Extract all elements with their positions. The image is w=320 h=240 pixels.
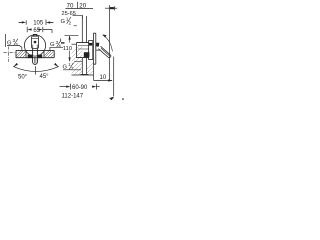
finished wall extension line [109, 5, 111, 80]
svg-text:65: 65 [33, 28, 40, 34]
dim 70/20 line [66, 8, 94, 10]
small mark [60, 39, 62, 42]
handle hub [96, 43, 101, 50]
body seal dark left [28, 55, 33, 59]
escutcheon side view [93, 33, 95, 64]
wall hatch left of pipes [72, 43, 77, 45]
body flange [89, 41, 93, 60]
dim 65 left arrow [26, 27, 28, 32]
cartridge body [32, 36, 39, 48]
dim 10 line [94, 80, 113, 82]
lever handle (front, pointing down) [33, 49, 38, 65]
dim 105 right lead and arrow [48, 22, 54, 24]
cartridge screw dot [34, 41, 37, 44]
dim 110 top arrow [69, 35, 71, 39]
handle tip extension line [113, 57, 115, 97]
left union nut hatch [25, 50, 27, 57]
dim 110 vertical line [69, 36, 71, 62]
svg-text:110: 110 [63, 46, 72, 52]
handle swing arc [103, 35, 113, 52]
center reference tick [35, 66, 37, 74]
dim 112-147 arrow [109, 97, 114, 100]
svg-text:10: 10 [100, 75, 107, 81]
valve body side view [76, 43, 88, 58]
dim 110 bottom arrow [69, 57, 71, 61]
centerline cross left pipe axis [4, 51, 15, 53]
bottom outlet pipe [82, 58, 86, 75]
svg-text:25-65: 25-65 [62, 11, 76, 17]
dim 105 left lead and arrow [19, 22, 25, 24]
body bar outline [16, 50, 54, 57]
swing arc left arrowhead [13, 63, 18, 67]
svg-text:60-90: 60-90 [72, 85, 88, 91]
escutcheon circle [24, 35, 45, 56]
G3/4 label left [5, 34, 7, 47]
handle lever side view [98, 46, 111, 58]
wall bottom edge [72, 74, 94, 76]
svg-text:G: G [61, 19, 66, 25]
escutcheon face extension line [93, 64, 95, 80]
swing arc [13, 66, 59, 71]
dark seal block [84, 52, 90, 57]
swing arc right arrowhead [54, 63, 59, 67]
small mark bottom right [122, 98, 124, 99]
dim 65 right arrow and tail [42, 27, 44, 32]
dim 20 line and arrows [105, 7, 117, 9]
svg-text:105: 105 [33, 21, 44, 27]
top outlet pipe [82, 16, 86, 43]
body seal dark right [38, 55, 43, 59]
svg-text:45°: 45° [40, 74, 50, 80]
svg-text:112-147: 112-147 [62, 94, 84, 100]
right union nut hatch [43, 50, 45, 57]
cartridge top tab [33, 34, 37, 36]
dim 110 extension lines [65, 35, 79, 37]
svg-text:50°: 50° [18, 74, 28, 80]
swing arc top arrowhead [102, 34, 106, 37]
dim 60-90 right arrow and lead [92, 86, 96, 88]
dim 60-90 left lead and arrow [60, 86, 68, 88]
